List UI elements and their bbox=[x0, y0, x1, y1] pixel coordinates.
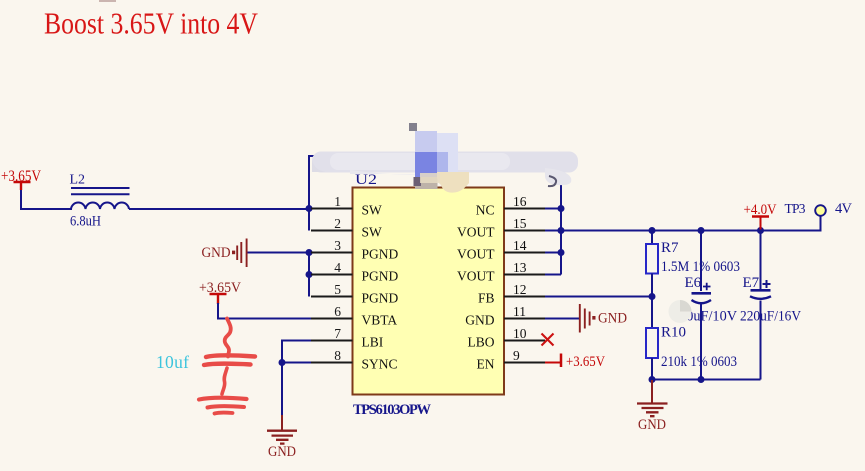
svg-text:VBTA: VBTA bbox=[362, 313, 398, 328]
svg-text:6.8uH: 6.8uH bbox=[70, 214, 101, 230]
inductor L2 bbox=[71, 188, 130, 209]
svg-text:6: 6 bbox=[334, 304, 341, 319]
svg-text:11: 11 bbox=[513, 304, 526, 319]
svg-text:GND: GND bbox=[268, 444, 296, 460]
svg-text:PGND: PGND bbox=[362, 269, 399, 284]
svg-text:14: 14 bbox=[513, 238, 527, 253]
test point TP3 bbox=[815, 205, 826, 216]
node SYNC junction bbox=[279, 359, 286, 366]
svg-text:10uf: 10uf bbox=[156, 352, 189, 372]
node bottom rail E6 junction bbox=[698, 376, 705, 383]
power port +3.65V (VBTA) bbox=[199, 280, 241, 304]
svg-text:1: 1 bbox=[334, 194, 341, 209]
pin 10 (LBO) bbox=[468, 326, 546, 350]
node rail-R7 junction bbox=[649, 227, 656, 234]
capacitor E7 bbox=[750, 280, 771, 380]
svg-text:SW: SW bbox=[362, 203, 383, 218]
svg-text:E7: E7 bbox=[743, 275, 760, 291]
svg-text:PGND: PGND bbox=[362, 291, 399, 306]
wire FB bbox=[545, 296, 652, 298]
svg-text:LBI: LBI bbox=[362, 335, 384, 350]
svg-text:GND: GND bbox=[638, 417, 666, 433]
wire bottom rail bbox=[652, 379, 761, 381]
node rail-E7 junction bbox=[757, 227, 764, 234]
svg-text:L2: L2 bbox=[70, 173, 86, 188]
node bottom rail R10 junction bbox=[649, 376, 656, 383]
svg-text:9: 9 bbox=[513, 348, 520, 363]
svg-text:10: 10 bbox=[513, 326, 527, 341]
svg-text:EN: EN bbox=[477, 357, 495, 372]
node rail-E6 junction bbox=[698, 227, 705, 234]
pin 3 (PGND) bbox=[311, 238, 399, 262]
svg-text:NC: NC bbox=[476, 203, 495, 218]
pin 7 (LBI) bbox=[311, 326, 384, 350]
capacitor 10uf (hand-drawn annotation) bbox=[199, 319, 255, 414]
watermark partial glyph bbox=[548, 176, 556, 186]
svg-text:13: 13 bbox=[513, 260, 527, 275]
pin 4 (PGND) bbox=[311, 260, 399, 284]
pin 13 (VOUT) bbox=[457, 260, 545, 284]
svg-text:GND: GND bbox=[465, 313, 494, 328]
wire rail to E7 bbox=[760, 231, 762, 291]
pin 9 (EN) bbox=[477, 348, 546, 372]
wire +3.65V to VBTA bbox=[218, 303, 352, 319]
svg-text:GND: GND bbox=[598, 311, 627, 327]
svg-text:16: 16 bbox=[513, 194, 527, 209]
node pin16 junction bbox=[558, 205, 565, 212]
svg-text:R7: R7 bbox=[661, 240, 679, 256]
svg-text:GND: GND bbox=[202, 245, 231, 261]
wire power to inductor bbox=[21, 190, 72, 209]
node FB junction bbox=[649, 293, 656, 300]
svg-text:FB: FB bbox=[478, 291, 495, 306]
power port +3.65V (EN) bbox=[545, 354, 605, 371]
wire R10 to bottom rail bbox=[651, 358, 653, 380]
wire rail to E6 bbox=[700, 231, 702, 292]
watermark beige wedge bbox=[437, 172, 469, 193]
svg-text:4: 4 bbox=[334, 260, 341, 275]
svg-text:VOUT: VOUT bbox=[457, 247, 495, 262]
svg-text:8: 8 bbox=[334, 348, 341, 363]
svg-text:Boost 3.65V into 4V: Boost 3.65V into 4V bbox=[44, 6, 259, 41]
wire NC/VOUT to bracket bbox=[545, 209, 561, 275]
svg-text:LBO: LBO bbox=[468, 335, 495, 350]
wire GND to PGND bbox=[247, 252, 309, 254]
wire inductor to SW node bbox=[129, 208, 309, 210]
svg-text:VOUT: VOUT bbox=[457, 269, 495, 284]
svg-text:TP3: TP3 bbox=[785, 201, 806, 216]
svg-text:R10: R10 bbox=[661, 325, 686, 341]
svg-text:+3.65V: +3.65V bbox=[566, 354, 605, 370]
svg-text:4V: 4V bbox=[835, 201, 853, 217]
svg-text:5: 5 bbox=[334, 282, 341, 297]
wire PGND bracket bbox=[308, 253, 310, 297]
wire VOUT top bracket bbox=[560, 156, 562, 275]
pin 6 (VBTA) bbox=[311, 304, 397, 328]
node PGND pin3 junction bbox=[306, 249, 313, 256]
ground GND (power-style, pin 11) bbox=[580, 304, 627, 333]
pin 12 (FB) bbox=[478, 282, 545, 306]
wire rail to R7 bbox=[651, 231, 653, 245]
watermark blue blob bbox=[409, 123, 458, 189]
power port +4.0V bbox=[744, 202, 777, 230]
node SW junction bbox=[306, 205, 313, 212]
wire SW top bracket bbox=[309, 156, 561, 231]
wire GND pin11 bbox=[545, 318, 579, 320]
svg-text:12: 12 bbox=[513, 282, 527, 297]
pin 14 (VOUT) bbox=[457, 238, 545, 262]
svg-text:7: 7 bbox=[334, 326, 341, 341]
ground (earth-style, bottom left) bbox=[267, 415, 297, 460]
svg-text:3: 3 bbox=[334, 238, 341, 253]
wire SYNC bbox=[282, 362, 352, 364]
svg-text:SYNC: SYNC bbox=[362, 357, 398, 372]
no-connect X on LBO bbox=[542, 334, 554, 346]
top edge artifact bbox=[99, 0, 116, 2]
wire output rail bbox=[561, 216, 821, 231]
svg-text:220uF/16V: 220uF/16V bbox=[740, 309, 801, 325]
pin 16 (NC) bbox=[476, 194, 545, 218]
node PGND pin4 junction bbox=[306, 271, 313, 278]
pin 5 (PGND) bbox=[311, 282, 399, 306]
power port +3.65V (input) bbox=[1, 168, 42, 190]
wire R7 to FB node bbox=[651, 274, 653, 329]
pin 8 (SYNC) bbox=[311, 348, 398, 372]
capacitor E6 bbox=[692, 283, 712, 380]
node pin15 junction bbox=[558, 227, 565, 234]
svg-text:VOUT: VOUT bbox=[457, 225, 495, 240]
resistor R10 bbox=[646, 328, 658, 358]
svg-text:2: 2 bbox=[334, 216, 341, 231]
watermark eraser circle (over E6 value) bbox=[669, 300, 692, 323]
svg-text:15: 15 bbox=[513, 216, 527, 231]
ground GND (power-style, pin 3) bbox=[202, 239, 247, 268]
ground (earth-style, bottom right) bbox=[637, 380, 668, 433]
op-amp/IC U2 TPS6103OPW body bbox=[353, 188, 505, 395]
pin 11 (GND) bbox=[465, 304, 545, 328]
wire LBI down bbox=[282, 341, 352, 416]
node pin14 junction bbox=[558, 249, 565, 256]
pin 1 (SW) bbox=[311, 194, 382, 218]
svg-text:SW: SW bbox=[362, 225, 383, 240]
pin 15 (VOUT) bbox=[457, 216, 545, 240]
svg-text:U2: U2 bbox=[355, 172, 377, 188]
svg-text:E6: E6 bbox=[685, 275, 702, 291]
svg-text:TPS6103OPW: TPS6103OPW bbox=[353, 402, 432, 418]
pin 2 (SW) bbox=[311, 216, 382, 240]
svg-text:210k 1% 0603: 210k 1% 0603 bbox=[661, 354, 737, 370]
resistor R7 bbox=[646, 244, 658, 274]
watermark smudge band bbox=[312, 152, 578, 186]
svg-text:PGND: PGND bbox=[362, 247, 399, 262]
